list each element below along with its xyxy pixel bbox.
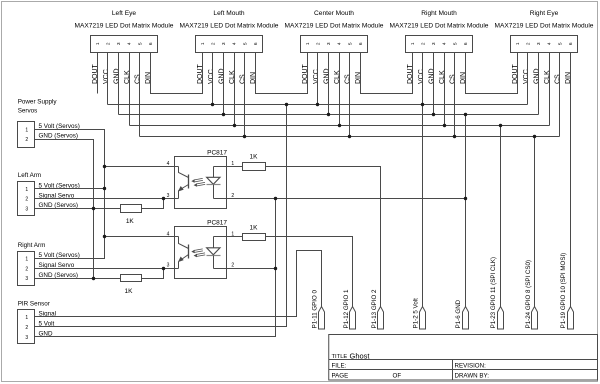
svg-text:1: 1 [515, 42, 521, 45]
gpio pin P1-23 GPIO 11 (SPI CLK) [498, 307, 504, 330]
svg-text:3: 3 [536, 42, 542, 45]
svg-text:P1-13 GPIO 2: P1-13 GPIO 2 [371, 289, 378, 328]
svg-text:5: 5 [452, 42, 458, 45]
svg-text:REVISION:: REVISION: [455, 362, 487, 369]
wire J3.3 GND to resistor R4 [35, 278, 121, 280]
wire U4 pin5 down to bus [454, 53, 456, 137]
svg-text:CS: CS [554, 74, 561, 84]
wire U7 pin2 to GND rail [214, 268, 276, 270]
title block [329, 335, 598, 381]
svg-text:6: 6 [148, 42, 154, 45]
junction U3 GND / GND bus [327, 113, 330, 116]
svg-text:1K: 1K [126, 218, 135, 225]
gpio pin P1-24 GPIO 8 (SPI CS0) [532, 307, 538, 330]
svg-text:P1-11 GPIO 0: P1-11 GPIO 0 [312, 289, 319, 328]
wire U7 pin1 to R2 [227, 236, 243, 238]
svg-text:1K: 1K [250, 224, 259, 231]
junction R4 / right signal [162, 267, 165, 270]
U7 light arrow 2 [196, 253, 205, 255]
junction P1-24 drop / CS bus [533, 135, 536, 138]
svg-text:VCC: VCC [103, 69, 110, 84]
svg-text:4: 4 [442, 42, 448, 45]
wire U1 DOUT stub (unconnected) [97, 53, 99, 94]
wire U5 pin5 down to bus end [559, 53, 561, 137]
svg-text:OF: OF [393, 372, 402, 379]
svg-text:Signal Servo: Signal Servo [39, 262, 75, 269]
svg-text:MAX7219 LED Dot Matrix Module: MAX7219 LED Dot Matrix Module [180, 22, 279, 29]
svg-text:DOUT: DOUT [407, 63, 414, 84]
svg-text:1: 1 [200, 42, 206, 45]
junction 5V rail / J2.1 [103, 187, 106, 190]
svg-text:6: 6 [568, 42, 574, 45]
resistor R4 1K (right arm pulldown) [121, 275, 142, 282]
svg-text:DOUT: DOUT [512, 63, 519, 84]
junction U2 GND / GND bus [222, 113, 225, 116]
connector J2 Left Arm [18, 172, 80, 216]
module U5 Right Eye MAX7219 [495, 10, 594, 84]
svg-text:PC817: PC817 [207, 150, 227, 157]
connector J3 Right Arm [18, 242, 80, 286]
wire U3 pin4 down to bus [339, 53, 341, 126]
connector J4 PIR Sensor [18, 300, 57, 343]
svg-text:5: 5 [137, 42, 143, 45]
svg-text:PIR Sensor: PIR Sensor [18, 300, 50, 307]
svg-text:P1-19 GPIO 10 (SPI MOSI): P1-19 GPIO 10 (SPI MOSI) [560, 253, 567, 329]
svg-text:6: 6 [253, 42, 259, 45]
svg-text:MAX7219 LED Dot Matrix Module: MAX7219 LED Dot Matrix Module [390, 22, 489, 29]
U6 light arrow 1 [194, 178, 203, 180]
U7 LED triangle [207, 248, 220, 255]
wire 5V rail to U7 pin4 [105, 236, 179, 238]
svg-text:GND: GND [113, 68, 120, 84]
svg-text:DOUT: DOUT [197, 63, 204, 84]
junction U2 VCC / VCC bus [211, 103, 214, 106]
svg-text:2: 2 [526, 42, 532, 45]
svg-text:3: 3 [221, 42, 227, 45]
svg-text:3: 3 [25, 207, 28, 213]
U6 emitter arrowhead [178, 186, 184, 192]
svg-text:GND: GND [323, 68, 330, 84]
wire U2 pin5 down to bus [244, 53, 246, 137]
U6 light arrow 2 [196, 182, 205, 184]
junction P1-23 drop / CLK bus [499, 124, 502, 127]
U6 LED cathode bar [207, 184, 221, 186]
svg-text:Left Eye: Left Eye [112, 10, 137, 17]
gpio pin P1-11 GPIO 0 [319, 307, 325, 330]
wire U3 pin5 down to bus [349, 53, 351, 137]
wire U5 pin3 down to bus end [538, 53, 540, 115]
svg-text:Right Arm: Right Arm [18, 242, 46, 249]
junction U4 CS / CS bus [453, 135, 456, 138]
svg-text:5: 5 [242, 42, 248, 45]
svg-text:PAGE: PAGE [332, 372, 349, 379]
U7 phototransistor emitter [179, 255, 189, 262]
svg-text:2: 2 [25, 137, 28, 143]
gpio pin P1-6 GND [463, 307, 469, 330]
svg-text:5: 5 [557, 42, 563, 45]
svg-text:6: 6 [463, 42, 469, 45]
module U4 Right Mouth MAX7219 [390, 10, 489, 84]
svg-text:4: 4 [127, 42, 133, 45]
wire U4 VCC pin through bus down to P1-2 [422, 53, 424, 307]
svg-text:4: 4 [232, 42, 238, 45]
svg-text:Right Eye: Right Eye [530, 10, 559, 17]
svg-text:CS: CS [449, 74, 456, 84]
wire U2 pin4 down to bus [234, 53, 236, 126]
junction GND drop / U6 pin2 row [274, 197, 277, 200]
U7 LED anode lead [213, 237, 215, 248]
U7 emitter arrowhead [178, 257, 184, 263]
U7 pin1 row inside box [214, 236, 227, 238]
svg-text:2: 2 [25, 266, 28, 272]
svg-text:3: 3 [116, 42, 122, 45]
junction U2 CS / CS bus [243, 135, 246, 138]
U7 phototransistor base bar [188, 245, 190, 259]
module U2 Left Mouth MAX7219 [180, 10, 279, 84]
wire U3 pin2 down to bus [317, 53, 319, 105]
junction R3 / left signal [162, 197, 165, 200]
wire PIR signal to P1-11 GPIO 0 [35, 251, 322, 317]
svg-text:GND (Servos): GND (Servos) [39, 272, 79, 279]
svg-text:1: 1 [25, 187, 28, 193]
U6 phototransistor emitter [179, 185, 189, 191]
wire PIR 5V up to VCC bus [35, 105, 287, 327]
U7 phototransistor collector [179, 237, 189, 249]
svg-text:1: 1 [25, 315, 28, 321]
wire R1 to P1-13 GPIO 2 [266, 167, 381, 307]
U6 LED triangle [207, 177, 220, 184]
wire U6 pin2 to GND (P1-6 vertical) [214, 198, 466, 200]
wire U4 pin3 down to bus [433, 53, 435, 115]
U6 LED cathode lead down [213, 185, 215, 199]
wire U5 pin4 down to bus end [549, 53, 551, 126]
svg-text:2: 2 [211, 42, 217, 45]
svg-text:5 Volt (Servos): 5 Volt (Servos) [39, 252, 80, 259]
gpio pin P1-13 GPIO 2 [378, 307, 384, 330]
svg-text:Right Mouth: Right Mouth [421, 10, 457, 17]
resistor R2 1K (U7 output) [243, 234, 266, 241]
junction GND drop / U7 pin2 row [274, 267, 277, 270]
svg-text:4: 4 [337, 42, 343, 45]
GND bus [119, 114, 539, 116]
wire U2 pin3 down to bus [223, 53, 225, 115]
svg-text:2: 2 [25, 325, 28, 331]
junction U4 VCC / VCC bus [421, 103, 424, 106]
svg-text:3: 3 [431, 42, 437, 45]
svg-text:Center Mouth: Center Mouth [314, 10, 354, 17]
U6 emitter lead down [178, 191, 180, 199]
svg-text:P1-24 GPIO 8 (SPI CS0): P1-24 GPIO 8 (SPI CS0) [525, 260, 532, 328]
svg-text:1: 1 [25, 127, 28, 133]
junction U4 GND / GND bus [432, 113, 435, 116]
wire DIN U3 to DOUT U4 daisy-chain link [361, 53, 413, 94]
svg-text:3: 3 [25, 276, 28, 282]
svg-text:MAX7219 LED Dot Matrix Module: MAX7219 LED Dot Matrix Module [495, 22, 594, 29]
svg-text:GND: GND [428, 68, 435, 84]
svg-text:VCC: VCC [418, 69, 425, 84]
svg-text:FILE:: FILE: [332, 362, 347, 369]
svg-text:P1-12 GPIO 1: P1-12 GPIO 1 [343, 289, 350, 328]
U6 phototransistor collector [179, 167, 189, 178]
svg-text:P1-2 5 Volt: P1-2 5 Volt [413, 298, 420, 329]
svg-text:Left Arm: Left Arm [18, 172, 41, 179]
wire CS bus down to P1-24 [534, 137, 536, 307]
U6 LED anode lead [213, 167, 215, 178]
svg-text:Left Mouth: Left Mouth [213, 10, 244, 17]
wire R3 to signal node [142, 199, 164, 209]
wire U5 pin2 down to bus end [527, 53, 529, 105]
junction 5V rail / U6 pin4 [103, 165, 106, 168]
title block divider 2 [329, 369, 598, 371]
junction U6 pin2 row / P1-6 vertical [464, 197, 467, 200]
title block divider 1 [329, 359, 598, 361]
resistor R3 1K (left arm pulldown) [121, 205, 142, 213]
svg-text:TITLE: TITLE [332, 354, 348, 360]
wire U2 pin2 down to bus [212, 53, 214, 105]
wire 5V servo rail J1.1 to J3.1 [35, 130, 105, 259]
wire J2.2 signal servo to U6 pin3 [35, 198, 179, 200]
svg-text:2: 2 [231, 263, 234, 269]
U6 pin1 row inside box [214, 166, 227, 168]
junction PIR 5V drop / VCC bus [285, 103, 288, 106]
CLK bus [130, 125, 550, 127]
svg-text:1: 1 [95, 42, 101, 45]
svg-text:CS: CS [239, 74, 246, 84]
wire U5 DIN down to P1-19 (SPI MOSI) [570, 53, 572, 307]
module U1 Left Eye MAX7219 [75, 10, 174, 84]
U6 phototransistor base bar [188, 175, 190, 189]
svg-text:VCC: VCC [208, 69, 215, 84]
svg-text:VCC: VCC [523, 69, 530, 84]
U7 LED cathode lead down [213, 256, 215, 269]
gpio pin P1-2 5 Volt [420, 307, 426, 330]
junction U3 CLK / CLK bus [338, 124, 341, 127]
wire CLK bus down to P1-23 [500, 126, 502, 307]
gpio pin P1-12 GPIO 1 [350, 307, 356, 330]
wire U3 pin3 down to bus [328, 53, 330, 115]
wire PIR GND up to opto GND row [35, 199, 276, 337]
svg-text:4: 4 [547, 42, 553, 45]
wire GND servo rail J1.2 down [35, 140, 94, 279]
VCC bus [108, 104, 528, 106]
svg-text:DOUT: DOUT [92, 63, 99, 84]
svg-text:CS: CS [344, 74, 351, 84]
U7 light arrow 1 [194, 249, 203, 251]
junction GND rail / J3.3 [92, 277, 95, 280]
svg-text:1K: 1K [250, 154, 259, 161]
junction U3 CS / CS bus [348, 135, 351, 138]
svg-text:MAX7219 LED Dot Matrix Module: MAX7219 LED Dot Matrix Module [285, 22, 384, 29]
gpio pin P1-19 GPIO 10 (SPI MOSI) [568, 307, 574, 330]
svg-text:5: 5 [347, 42, 353, 45]
wire U1 pin5 down to bus [139, 53, 141, 137]
wire U1 pin3 down to bus [118, 53, 120, 115]
svg-text:2: 2 [316, 42, 322, 45]
module U3 Center Mouth MAX7219 [285, 10, 384, 84]
svg-text:P1-23 GPIO 11 (SPI CLK): P1-23 GPIO 11 (SPI CLK) [490, 257, 497, 328]
svg-text:2: 2 [106, 42, 112, 45]
wire R2 to P1-12 GPIO 1 [266, 237, 353, 307]
svg-text:1: 1 [305, 42, 311, 45]
svg-text:VCC: VCC [313, 69, 320, 84]
wire GND bus down to P1-6 [465, 115, 467, 307]
wire R4 to signal node [142, 269, 164, 279]
junction GND rail / J2.3 [92, 207, 95, 210]
title block column divider [452, 360, 454, 381]
svg-text:MAX7219 LED Dot Matrix Module: MAX7219 LED Dot Matrix Module [75, 22, 174, 29]
svg-text:GND: GND [533, 68, 540, 84]
svg-text:GND: GND [218, 68, 225, 84]
svg-text:DRAWN BY:: DRAWN BY: [455, 372, 490, 379]
wire J3.2 signal servo to U7 pin3 [35, 268, 179, 270]
svg-text:Servos: Servos [18, 107, 38, 114]
junction 5V rail / U7 pin4 [103, 235, 106, 238]
connector J1 Power Supply Servos [18, 98, 80, 147]
wire DIN U4 to DOUT U5 daisy-chain link [466, 53, 518, 94]
wire 5V rail to U6 pin4 [105, 166, 179, 168]
svg-text:1: 1 [410, 42, 416, 45]
U7 LED cathode bar [207, 255, 221, 257]
svg-text:2: 2 [421, 42, 427, 45]
wire J2.3 GND to resistor R3 [35, 208, 121, 210]
wire DIN U1 to DOUT U2 daisy-chain link [151, 53, 203, 94]
svg-text:2: 2 [25, 197, 28, 203]
U7 emitter lead down [178, 262, 180, 269]
svg-text:1: 1 [25, 256, 28, 262]
svg-text:3: 3 [167, 263, 170, 269]
svg-text:Power Supply: Power Supply [18, 98, 58, 105]
svg-text:P1-6 GND: P1-6 GND [455, 299, 462, 328]
svg-text:CS: CS [134, 74, 141, 84]
junction U4 CLK / CLK bus [443, 124, 446, 127]
svg-text:3: 3 [25, 335, 28, 341]
CS bus [140, 136, 560, 138]
wire J2.1 5V to rail [35, 188, 105, 190]
svg-text:1K: 1K [125, 288, 134, 295]
optocoupler U6 PC817 [167, 150, 235, 209]
svg-text:6: 6 [358, 42, 364, 45]
svg-text:5 Volt (Servos): 5 Volt (Servos) [39, 123, 80, 130]
wire U1 pin4 down to bus [129, 53, 131, 126]
optocoupler U7 PC817 [167, 219, 235, 278]
wire DIN U2 to DOUT U3 daisy-chain link [256, 53, 308, 94]
svg-text:Ghost: Ghost [350, 351, 371, 360]
svg-text:3: 3 [326, 42, 332, 45]
svg-text:DOUT: DOUT [302, 63, 309, 84]
wire U4 pin4 down to bus [444, 53, 446, 126]
wire U6 pin1 to R1 [227, 166, 243, 168]
junction U3 VCC / VCC bus [316, 103, 319, 106]
wire U1 pin2 down to bus [107, 53, 109, 105]
resistor R1 1K (U6 output) [243, 163, 266, 171]
junction U2 CLK / CLK bus [233, 124, 236, 127]
junction P1-6 drop / GND bus [464, 113, 467, 116]
svg-text:PC817: PC817 [207, 219, 227, 226]
svg-text:GND (Servos): GND (Servos) [39, 133, 79, 140]
